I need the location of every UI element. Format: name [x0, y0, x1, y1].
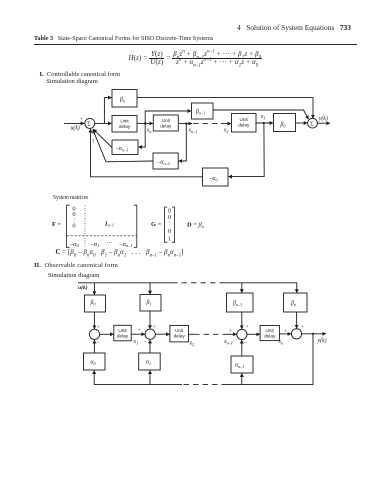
svg-text:α0: α0 [91, 360, 97, 367]
svg-text:+: + [97, 324, 100, 330]
svg-text:Unit: Unit [120, 118, 129, 123]
svg-text:+: + [80, 117, 83, 123]
svg-text:1: 1 [92, 140, 95, 145]
svg-text:delay: delay [160, 123, 172, 128]
svg-text:D = βn: D = βn [187, 221, 205, 228]
svg-text:In–1: In–1 [104, 220, 114, 227]
svg-text:0: 0 [72, 223, 75, 230]
svg-text:–α1: –α1 [90, 241, 100, 248]
svg-text:y(k): y(k) [317, 337, 327, 344]
svg-text:Σ: Σ [87, 121, 91, 128]
svg-text:+: + [301, 325, 304, 331]
svg-text:delay: delay [119, 124, 131, 129]
svg-text:x2: x2 [223, 127, 229, 134]
svg-text:βn: βn [119, 97, 125, 104]
svg-text:+: + [284, 329, 287, 335]
svg-text:xn: xn [146, 128, 152, 135]
svg-text:delay: delay [238, 123, 250, 128]
svg-text:1: 1 [168, 235, 171, 242]
svg-text:–α0: –α0 [209, 176, 219, 183]
svg-text:y(k): y(k) [318, 115, 328, 122]
svg-text:G =: G = [151, 221, 162, 228]
svg-text:x2: x2 [189, 341, 195, 348]
svg-text:⋮: ⋮ [167, 220, 172, 226]
svg-text:+: + [138, 328, 141, 334]
svg-text:–αn–2: –αn–2 [157, 160, 170, 167]
svg-text:x1: x1 [260, 114, 266, 121]
svg-text:+: + [246, 324, 249, 330]
svg-text:0: 0 [168, 214, 171, 221]
svg-text:u(k): u(k) [78, 284, 88, 291]
svg-text:+: + [153, 324, 156, 330]
svg-text:β0: β0 [90, 300, 97, 307]
svg-text:+: + [229, 328, 232, 334]
svg-text:Unit: Unit [240, 117, 249, 122]
svg-text:Unit: Unit [266, 328, 275, 333]
svg-text:delay: delay [174, 334, 186, 339]
svg-text:u(k): u(k) [71, 124, 80, 131]
svg-text:F =: F = [52, 221, 62, 228]
svg-text:βn–1: βn–1 [232, 301, 242, 308]
svg-text:β0: β0 [280, 122, 287, 129]
svg-text:–: – [243, 340, 247, 346]
svg-text:–αn–1: –αn–1 [118, 241, 132, 248]
svg-text:xn: xn [278, 339, 284, 346]
svg-text:–αn–1: –αn–1 [115, 146, 128, 153]
svg-text:Unit: Unit [162, 118, 171, 123]
svg-text:–α0: –α0 [69, 241, 80, 248]
svg-text:βn–1: βn–1 [195, 109, 205, 116]
svg-text:–: – [96, 340, 100, 346]
svg-text:x1: x1 [133, 339, 139, 346]
svg-text:0: 0 [72, 211, 75, 218]
svg-text:···: ··· [106, 240, 112, 247]
svg-text:0: 0 [168, 228, 171, 235]
svg-text:αn–1: αn–1 [235, 363, 244, 370]
svg-text:β1: β1 [146, 300, 152, 307]
svg-text:delay: delay [117, 333, 129, 338]
svg-text:Σ: Σ [310, 121, 314, 128]
svg-text:xn–1: xn–1 [223, 339, 233, 346]
svg-text:xn–1: xn–1 [188, 127, 198, 134]
svg-text:Unit: Unit [118, 328, 127, 333]
svg-text:delay: delay [264, 333, 276, 338]
svg-text:α1: α1 [146, 360, 151, 367]
svg-text:βn: βn [290, 301, 296, 308]
svg-text:–: – [143, 339, 147, 345]
svg-text:Unit: Unit [175, 328, 184, 333]
